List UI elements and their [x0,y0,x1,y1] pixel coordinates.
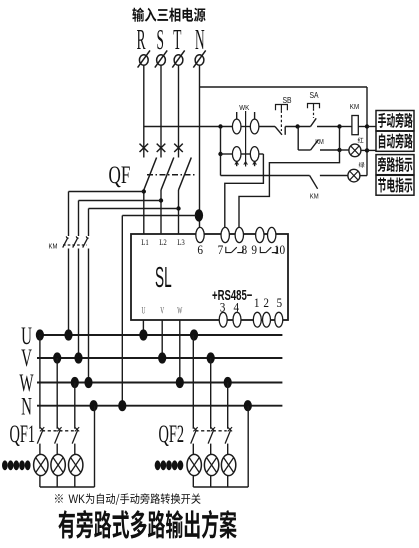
svg-text:S: S [156,23,163,55]
svg-text:L2: L2 [159,237,167,247]
svg-text:WK: WK [69,493,86,506]
svg-text:W: W [177,305,182,316]
svg-text:T: T [173,23,181,55]
svg-text:SA: SA [310,91,319,101]
svg-text:N: N [195,23,205,55]
svg-text:V: V [160,305,164,316]
svg-text:L3: L3 [177,237,185,247]
svg-text:WK: WK [239,104,249,112]
svg-text:QF2: QF2 [159,421,185,448]
svg-text:KM: KM [315,138,324,146]
svg-text:KM: KM [310,193,319,201]
svg-text:6: 6 [197,242,203,257]
svg-text:U: U [141,305,145,316]
svg-text:+RS485−: +RS485− [212,287,252,304]
svg-text:8: 8 [241,242,247,257]
svg-text:9: 9 [251,242,257,257]
svg-text:QF1: QF1 [10,421,36,448]
svg-text:QF: QF [109,161,131,189]
svg-text:N: N [21,394,32,421]
svg-text:V: V [21,345,32,372]
svg-text:KM: KM [49,243,58,251]
svg-text:KM: KM [350,104,360,112]
svg-text:1: 1 [254,295,260,310]
svg-text:R: R [137,23,146,55]
svg-text:L1: L1 [141,237,149,247]
svg-text:10: 10 [274,242,285,257]
svg-text:SL: SL [155,260,172,293]
svg-text:2: 2 [263,295,269,310]
svg-text:5: 5 [276,295,282,310]
svg-text:7: 7 [218,242,224,257]
